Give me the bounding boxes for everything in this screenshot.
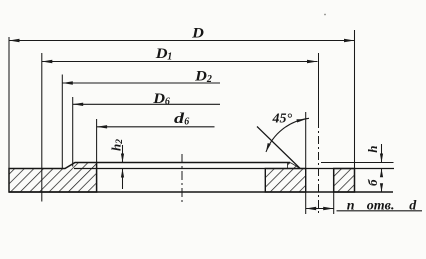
dimension line D	[9, 40, 355, 42]
svg-text:45°: 45°	[272, 112, 293, 127]
bolt hole left edge extension	[305, 112, 307, 169]
extension line D6 left	[72, 97, 74, 167]
b dimension arrow (bottom)	[381, 184, 383, 193]
dimension line D1	[42, 61, 318, 63]
45 degree dimension arc	[266, 118, 309, 152]
flange right-middle section block (hatched)	[265, 169, 305, 193]
svg-text:6: 6	[165, 96, 170, 107]
45deg chamfer dimension diagonal	[257, 127, 300, 169]
svg-text:d: d	[174, 111, 185, 127]
label underline (n otv. d)	[337, 210, 423, 212]
flange far-right section block (hatched)	[334, 169, 355, 193]
svg-text:h: h	[365, 146, 380, 153]
svg-text:отв.: отв.	[367, 198, 395, 213]
extension line D right	[354, 30, 356, 169]
h dimension extension line (raised face top extended)	[321, 162, 394, 164]
h2 dimension arrows	[122, 145, 124, 163]
svg-text:6: 6	[184, 117, 189, 128]
flange axis centerline	[181, 154, 183, 204]
svg-text:D: D	[194, 69, 207, 85]
bolt hole axis / D1 right extension	[318, 53, 320, 120]
flange top edge line	[74, 168, 394, 170]
hole diameter d dimension line	[306, 208, 334, 210]
svg-text:D: D	[191, 26, 204, 42]
svg-text:n: n	[347, 198, 355, 213]
svg-text:D: D	[152, 91, 165, 107]
extension line D2 left	[61, 75, 63, 169]
dimension line d6 (single arrow)	[97, 126, 215, 128]
chamfer hatched triangle	[288, 163, 301, 169]
extension line D1 left	[41, 53, 43, 202]
extension line d6 left / bore edge	[96, 119, 98, 163]
extension line D left	[8, 37, 10, 169]
scan speck	[324, 14, 326, 16]
flange left section block (hatched)	[9, 163, 97, 193]
dimension line D6 (single arrow)	[73, 103, 220, 105]
svg-text:2: 2	[206, 74, 212, 85]
svg-text:б: б	[365, 179, 380, 186]
h dimension arrows	[381, 144, 383, 163]
bolt hole right edge extension	[333, 192, 335, 214]
svg-text:d: d	[409, 198, 417, 213]
raised face top edge	[97, 162, 290, 164]
svg-text:1: 1	[167, 52, 172, 63]
dimension line D2 (single arrow)	[62, 82, 220, 84]
flange bottom edge line	[9, 191, 393, 193]
svg-text:D: D	[155, 46, 168, 62]
